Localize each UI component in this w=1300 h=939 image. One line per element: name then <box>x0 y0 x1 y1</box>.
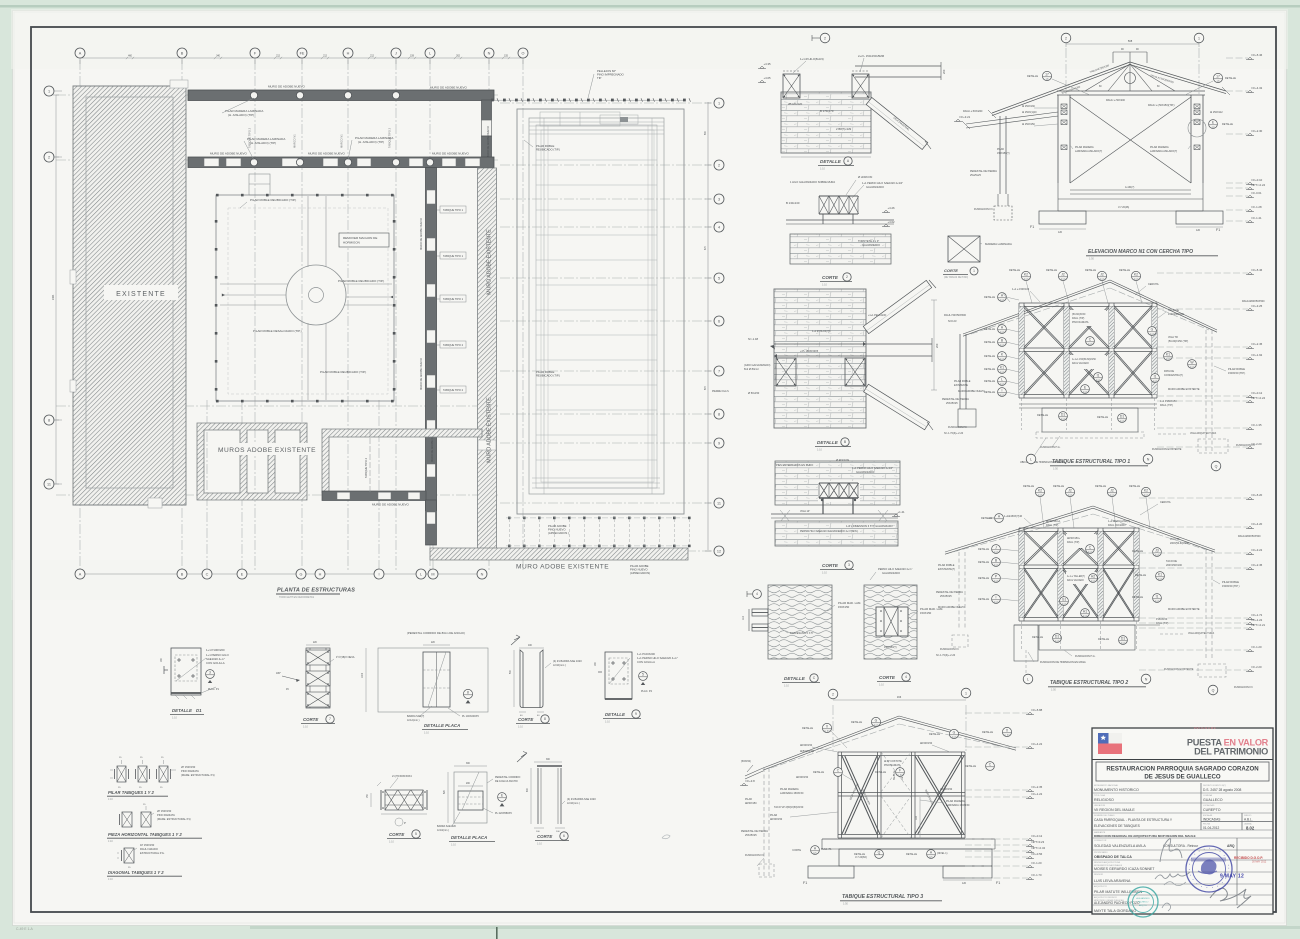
svg-text:A-164(?): A-164(?) <box>1125 186 1135 189</box>
svg-text:DEL PATRIMONIO: DEL PATRIMONIO <box>1194 747 1268 757</box>
svg-text:NPT=0.23: NPT=0.23 <box>1032 840 1045 844</box>
truss webs <box>1129 62 1131 91</box>
svg-text:OBISPADO DE TALCA: OBISPADO DE TALCA <box>1094 855 1132 859</box>
svg-text:1+1 P150X150: 1+1 P150X150 <box>1160 400 1177 403</box>
pilar tabiques 1 y 2 legend <box>117 766 126 782</box>
svg-text:PLANTA DE ESTRUCTURAS: PLANTA DE ESTRUCTURAS <box>277 588 355 594</box>
svg-text:150X150(?): 150X150(?) <box>997 152 1010 155</box>
svg-text:1:50: 1:50 <box>1089 258 1094 261</box>
svg-text:TORNTETE 4 x 3": TORNTETE 4 x 3" <box>858 239 879 243</box>
tipo3 middle bay dashed X <box>881 796 911 838</box>
svg-text:TABIQUE TIPO 2: TABIQUE TIPO 2 <box>443 343 464 347</box>
svg-text:1+1+1 150(50-60)X150: 1+1+1 150(50-60)X150 <box>1072 359 1096 361</box>
svg-text:CON GOLILLA: CON GOLILLA <box>637 660 655 664</box>
svg-text:Ø ROCION: Ø ROCION <box>836 458 849 462</box>
svg-text:166: 166 <box>897 695 902 699</box>
tipo1 callouts left <box>998 293 1007 302</box>
svg-text:1: 1 <box>718 101 720 105</box>
main posts <box>1057 95 1059 183</box>
svg-text:N=-1.70(3)+-2.20: N=-1.70(3)+-2.20 <box>936 654 956 657</box>
corte 7: laminated column <box>306 648 330 708</box>
svg-text:FUNDACION EXISTENTE: FUNDACION EXISTENTE <box>1164 668 1194 671</box>
svg-text:V-7.20(66): V-7.20(66) <box>855 856 867 859</box>
svg-text:UBICACION: UBICACION <box>1094 804 1106 807</box>
svg-text:ARQUITECTO REVISOR: ARQUITECTO REVISOR <box>1094 896 1117 899</box>
svg-text:DETALLE: DETALLE <box>978 577 989 580</box>
svg-text:H: H <box>347 51 350 55</box>
svg-text:1+1 P100X200: 1+1 P100X200 <box>206 648 225 652</box>
svg-text:25x25x25: 25x25x25 <box>970 174 981 177</box>
svg-text:LUIS LEIVA ARAVENA: LUIS LEIVA ARAVENA <box>1094 879 1131 883</box>
svg-text:I1: I1 <box>1156 595 1159 599</box>
svg-text:E10: E10 <box>1068 493 1073 497</box>
svg-text:LAMINADA AISLADO(?): LAMINADA AISLADO(?) <box>1150 150 1177 153</box>
svg-text:2: 2 <box>846 275 848 279</box>
svg-text:N=+3.22: N=+3.22 <box>1252 548 1263 552</box>
svg-text:(MADE. ESTRUCTURAL P1): (MADE. ESTRUCTURAL P1) <box>181 773 215 777</box>
east existing adobe wall (hatched vertical) <box>478 168 497 553</box>
svg-text:E10: E10 <box>1190 365 1195 369</box>
svg-text:150X150X100: 150X150X100 <box>1168 313 1184 316</box>
svg-text:DETALLE: DETALLE <box>817 440 839 445</box>
svg-text:8: 8 <box>718 412 720 416</box>
svg-text:7: 7 <box>329 717 331 721</box>
tie beam <box>1057 90 1205 92</box>
svg-text:N=+3.25: N=+3.25 <box>1252 304 1263 308</box>
detalle B: tall stone wall with beams and diagonals <box>774 289 866 428</box>
svg-text:CONCENTRA(?): CONCENTRA(?) <box>1164 374 1183 377</box>
svg-text:NPT=-0.24: NPT=-0.24 <box>1252 396 1266 400</box>
tabique estructural tipo 3 <box>828 689 838 699</box>
svg-text:PL 100X200X5: PL 100X200X5 <box>462 715 479 718</box>
svg-text:CORTE: CORTE <box>389 832 405 837</box>
svg-text:⊞ 150X(1)20: ⊞ 150X(1)20 <box>1022 111 1037 114</box>
svg-text:⊞ 150X112: ⊞ 150X112 <box>1210 111 1223 114</box>
svg-text:RELIGIOSO: RELIGIOSO <box>1094 798 1114 802</box>
svg-text:TABIQUE TIPO 2: TABIQUE TIPO 2 <box>248 127 252 148</box>
elevacion marco N1 con cercha tipo <box>1061 33 1071 43</box>
svg-text:2: 2 <box>718 163 720 167</box>
tipo3 vertical dim right <box>919 797 921 839</box>
svg-text:E 50: E 50 <box>1004 733 1010 737</box>
muros adobe existente rooms SW <box>197 423 307 500</box>
svg-text:B: B <box>181 51 184 55</box>
svg-text:9: 9 <box>718 441 720 445</box>
svg-text:K2: K2 <box>1038 489 1042 493</box>
tabique tipo labels along center wall <box>440 206 466 213</box>
svg-text:CORTE: CORTE <box>822 563 839 568</box>
svg-text:11: 11 <box>47 482 51 486</box>
svg-text:⊞150X150: ⊞150X150 <box>800 744 813 747</box>
svg-text:CONSULTORA - Retrour: CONSULTORA - Retrour <box>1163 844 1199 848</box>
diagonal tabiques legend <box>124 848 134 863</box>
svg-text:TABIQUE ESTRUCTURAL TIPO 3: TABIQUE ESTRUCTURAL TIPO 3 <box>842 894 923 900</box>
svg-text:E10: E10 <box>1000 393 1005 397</box>
svg-text:1000: 1000 <box>362 672 364 678</box>
svg-text:N=-1.20: N=-1.20 <box>1252 645 1262 649</box>
svg-text:PINO RADIATA: PINO RADIATA <box>1072 321 1089 324</box>
svg-text:17: 17 <box>1216 75 1220 79</box>
svg-text:1:10: 1:10 <box>822 284 827 287</box>
svg-text:REVISION ARQUITECTURA: REVISION ARQUITECTURA <box>1094 861 1120 864</box>
svg-text:1:10: 1:10 <box>108 840 113 843</box>
svg-text:FUNDACION EXISTENTE: FUNDACION EXISTENTE <box>1152 448 1182 451</box>
svg-text:DETALLE: DETALLE <box>1225 77 1236 80</box>
center circle element <box>286 265 346 325</box>
base / foundations <box>1070 189 1191 191</box>
svg-text:PINO RADIATA: PINO RADIATA <box>884 764 901 767</box>
teal circular stamp <box>1128 887 1158 917</box>
svg-text:REMOVER MACHON DE: REMOVER MACHON DE <box>343 236 377 240</box>
svg-text:LAMINADA 150X150: LAMINADA 150X150 <box>946 804 970 807</box>
svg-text:DETALLE: DETALLE <box>982 731 993 734</box>
svg-text:+4.35: +4.35 <box>764 62 772 66</box>
svg-text:+4.02: +4.02 <box>888 220 896 224</box>
svg-text:D1: D1 <box>1061 413 1065 417</box>
svg-text:(H. AISLADO) (TIP): (H. AISLADO) (TIP) <box>358 140 384 144</box>
svg-text:E10: E10 <box>1153 379 1158 383</box>
svg-text:8x2 Ø 80cm²: 8x2 Ø 80cm² <box>744 367 759 371</box>
svg-text:PACHECO: PACHECO <box>1138 901 1149 904</box>
svg-text:TABIQUE TIPO 2: TABIQUE TIPO 2 <box>364 457 368 478</box>
svg-text:17: 17 <box>1045 73 1049 77</box>
svg-text:EXISTENTE: EXISTENTE <box>116 291 166 298</box>
tabique estructural tipo 2 <box>1035 487 1044 496</box>
svg-text:DETALLE: DETALLE <box>1129 485 1140 488</box>
svg-text:1:10: 1:10 <box>172 717 177 720</box>
svg-text:MURO ADOBE EXISTENTE: MURO ADOBE EXISTENTE <box>1168 608 1200 611</box>
svg-text:MURO DE ADOBE NUEVO: MURO DE ADOBE NUEVO <box>419 358 423 390</box>
svg-text:•: • <box>1225 876 1226 880</box>
svg-text:TIP: TIP <box>597 76 601 80</box>
rafters <box>992 62 1130 113</box>
svg-text:PILAR ROBLE REUBICADO (TIP.): PILAR ROBLE REUBICADO (TIP.) <box>250 198 296 202</box>
svg-text:N=+0.56: N=+0.56 <box>1032 852 1043 856</box>
svg-text:PERNO HILO SAE1020 GALVANIZADO: PERNO HILO SAE1020 GALVANIZADO 4+¾"(MIN.… <box>800 530 858 533</box>
nave / east courtyard long building <box>517 109 684 514</box>
tipo3 roof <box>763 716 899 768</box>
svg-text:TABIQUE TIPO 1: TABIQUE TIPO 1 <box>443 297 464 301</box>
svg-text:DETALLE: DETALLE <box>813 771 824 774</box>
detalle C: wavy adobe with bolts <box>768 585 832 659</box>
left arrow markers corte7 <box>282 676 298 680</box>
svg-text:1:10: 1:10 <box>303 726 308 729</box>
svg-text:•: • <box>1196 882 1197 886</box>
svg-text:•: • <box>1190 873 1191 877</box>
tipo3 callouts <box>871 717 880 726</box>
svg-text:N=+3.8: N=+3.8 <box>746 779 756 783</box>
detalle placa 2 <box>454 772 487 823</box>
svg-text:INDICADAS: INDICADAS <box>1203 818 1220 822</box>
svg-text:E5: E5 <box>929 855 933 859</box>
svg-text:N=+5.46: N=+5.46 <box>1252 268 1263 272</box>
svg-text:25X25X25: 25X25X25 <box>745 834 757 837</box>
svg-text:LAMINADA AISLADO(?): LAMINADA AISLADO(?) <box>1075 150 1102 153</box>
svg-text:N=+5.20: N=+5.20 <box>1252 493 1263 497</box>
svg-text:FUNDACION F3: FUNDACION F3 <box>745 854 764 857</box>
svg-text:CUREPTO: CUREPTO <box>1203 808 1221 812</box>
svg-text:1+1 P100X200: 1+1 P100X200 <box>637 652 655 656</box>
svg-text:PEDESTAL DE PIEDRA: PEDESTAL DE PIEDRA <box>970 170 997 173</box>
svg-text:2+2 L 150x150x5MM: 2+2 L 150x150x5MM <box>858 54 885 58</box>
detalle D1 <box>171 648 201 695</box>
svg-text:N: N <box>488 51 491 55</box>
svg-text:DETALLE: DETALLE <box>965 765 976 768</box>
svg-text:I1: I1 <box>1097 374 1100 378</box>
svg-text:E10: E10 <box>1155 599 1160 603</box>
signatures (grey ink) <box>1160 839 1182 862</box>
left dimension chain <box>55 95 57 484</box>
svg-text:E10: E10 <box>994 579 999 583</box>
svg-text:•: • <box>1192 878 1193 882</box>
svg-text:•: • <box>1204 847 1205 851</box>
detail callouts 17 <box>1042 71 1051 80</box>
svg-text:25X25X25: 25X25X25 <box>946 402 958 405</box>
svg-text:GALVANIZADO: GALVANIZADO <box>866 185 884 189</box>
svg-text:EXISTENTE: EXISTENTE <box>954 384 968 387</box>
svg-text:DETALLE: DETALLE <box>978 598 989 601</box>
svg-text:N=+1.22: N=+1.22 <box>1252 618 1263 622</box>
svg-text:PEDESTAL DE PIEDRA: PEDESTAL DE PIEDRA <box>741 830 768 833</box>
svg-text:F1: F1 <box>1216 228 1220 232</box>
svg-text:200X150X100: 200X150X100 <box>1166 564 1182 567</box>
svg-text:REUBICADO (TIP.): REUBICADO (TIP.) <box>536 148 560 152</box>
svg-text:ELEVACIONES DE TABIQUES: ELEVACIONES DE TABIQUES <box>1094 824 1141 828</box>
svg-text:DETALLE: DETALLE <box>875 771 886 774</box>
svg-text:E10: E10 <box>994 600 999 604</box>
svg-text:PROPIETARIO: PROPIETARIO <box>1094 851 1108 854</box>
svg-text:•: • <box>1220 850 1221 854</box>
svg-text:N: N <box>1147 457 1150 461</box>
svg-text:•: • <box>1199 849 1200 853</box>
svg-text:7: 7 <box>718 369 720 373</box>
remover machon label box <box>339 233 389 247</box>
svg-text:E10: E10 <box>1061 277 1066 281</box>
tipo3 frame <box>838 751 965 753</box>
svg-text:TABIQUE TIPO 1: TABIQUE TIPO 1 <box>443 254 464 258</box>
svg-text:•: • <box>1227 858 1228 862</box>
svg-text:E10: E10 <box>1150 332 1155 336</box>
svg-text:8: 8 <box>48 418 50 422</box>
tipo3 big diagonal braces <box>842 756 877 834</box>
svg-text:1:10: 1:10 <box>108 878 113 881</box>
svg-text:N=+0.10: N=+0.10 <box>1252 178 1263 182</box>
svg-text:RAULI GRADO: RAULI GRADO <box>140 847 158 851</box>
svg-text:DETALLE: DETALLE <box>820 159 842 164</box>
svg-text:1: 1 <box>48 89 50 93</box>
svg-text:CERCHA: CERCHA <box>1160 501 1171 504</box>
svg-text:⊞ 150X150: ⊞ 150X150 <box>1022 123 1035 126</box>
svg-text:A=12(mm ): A=12(mm ) <box>407 719 420 722</box>
svg-text:E10: E10 <box>1061 417 1066 421</box>
muro de adobe nuevo - north wall <box>188 90 494 101</box>
svg-text:VIGA TR: VIGA TR <box>1168 336 1178 339</box>
svg-text:PATA DE: PATA DE <box>1164 370 1174 373</box>
svg-text:N=-1.20: N=-1.20 <box>1032 861 1042 865</box>
svg-text:CORTE: CORTE <box>822 275 839 280</box>
svg-text:H1: H1 <box>1083 610 1087 614</box>
svg-text:PILAR TABIQUES 1 Y 2: PILAR TABIQUES 1 Y 2 <box>108 790 155 795</box>
svg-text:(DE TABLAS DE PINO): (DE TABLAS DE PINO) <box>944 276 968 279</box>
svg-text:FUNDACION H.A.: FUNDACION H.A. <box>1040 446 1061 449</box>
svg-text:DETALLE: DETALLE <box>802 727 813 730</box>
svg-text:E 50: E 50 <box>824 729 830 733</box>
svg-text:PINO RADIATA: PINO RADIATA <box>181 769 199 773</box>
svg-text:PIEDRE FILA S: PIEDRE FILA S <box>712 390 729 393</box>
svg-text:5: 5 <box>415 832 417 836</box>
svg-text:MOISES GERARDO ICAZA SONNET: MOISES GERARDO ICAZA SONNET <box>1094 867 1155 871</box>
svg-text:9°: 9° <box>404 823 406 825</box>
svg-text:⊞150X150: ⊞150X150 <box>940 788 953 791</box>
svg-text:K1: K1 <box>1166 353 1170 357</box>
svg-text:MURO ADOBE EXISTENTE: MURO ADOBE EXISTENTE <box>516 564 609 571</box>
tipo1 foundations <box>1019 403 1157 405</box>
svg-text:150X150: 150X150 <box>838 605 850 609</box>
svg-text:N=+1.22: N=+1.22 <box>1032 792 1043 796</box>
svg-text:4: 4 <box>756 592 758 596</box>
svg-text:B 170x170: B 170x170 <box>820 109 834 113</box>
svg-text:J2: J2 <box>1061 273 1065 277</box>
svg-text:2P 150X150: 2P 150X150 <box>181 765 196 769</box>
svg-text:ARQTO.: ARQTO. <box>1139 904 1148 907</box>
svg-text:⊞ 2P COSTOTE: ⊞ 2P COSTOTE <box>884 760 902 763</box>
svg-text:1P 150X150: 1P 150X150 <box>140 843 155 847</box>
logo: chilean flag <box>1098 733 1109 744</box>
svg-text:VIGA ARQUITECTURA: VIGA ARQUITECTURA <box>1188 632 1214 635</box>
svg-text:1 HILO GALVANIZADO SOBRE MURA: 1 HILO GALVANIZADO SOBRE MURA <box>790 180 835 184</box>
svg-text:N=-1.35: N=-1.35 <box>1252 423 1262 427</box>
svg-text:30 MAY 2012: 30 MAY 2012 <box>1252 861 1267 864</box>
svg-text:150X150(?): 150X150(?) <box>884 646 897 649</box>
svg-text:1:10: 1:10 <box>822 572 827 575</box>
svg-text:E10: E10 <box>1000 343 1005 347</box>
svg-text:⊞150X150: ⊞150X150 <box>920 742 933 745</box>
svg-text:E10: E10 <box>1000 298 1005 302</box>
svg-text:DETALLE: DETALLE <box>1027 75 1038 78</box>
svg-text:L: L <box>420 572 422 576</box>
svg-text:M: M <box>431 572 434 576</box>
svg-text:•: • <box>1194 852 1195 856</box>
svg-text:1+1 PERNO HILO SAE1020 4+3/4": 1+1 PERNO HILO SAE1020 4+3/4" <box>852 466 893 470</box>
svg-text:1: 1 <box>1198 36 1200 40</box>
svg-text:150X150: 150X150 <box>920 611 932 615</box>
svg-text:508: 508 <box>1128 39 1133 43</box>
svg-text:1+1 PERNO HILO SAE1020 4+3/4": 1+1 PERNO HILO SAE1020 4+3/4" <box>862 181 903 185</box>
svg-text:Q: Q <box>878 851 881 855</box>
svg-text:A: A <box>79 51 82 55</box>
tipo2 foundations <box>1014 624 1160 626</box>
svg-text:FUNDACION F3: FUNDACION F3 <box>940 648 959 651</box>
svg-text:N=+5.88: N=+5.88 <box>1032 708 1043 712</box>
svg-text:FE: FE <box>300 51 305 55</box>
svg-text:E10: E10 <box>1166 357 1171 361</box>
svg-text:MURO DE ADOBE NUEVO: MURO DE ADOBE NUEVO <box>372 503 410 507</box>
NE corner wall segment <box>482 100 492 120</box>
svg-text:FUNDACION H.A.: FUNDACION H.A. <box>1075 655 1096 658</box>
svg-text:N=0.23: N=0.23 <box>948 319 957 323</box>
svg-text:CORTE: CORTE <box>879 675 896 680</box>
svg-text:RAULI ⌀ 50X200: RAULI ⌀ 50X200 <box>1106 99 1125 102</box>
svg-text:2: 2 <box>824 36 826 40</box>
svg-text:+1+1 PELICANO: +1+1 PELICANO <box>868 314 886 317</box>
svg-text:5: 5 <box>642 673 644 677</box>
svg-text:E: E <box>241 572 244 576</box>
svg-text:GALVANIZADO: GALVANIZADO <box>882 571 900 575</box>
svg-text:PILAR ROBLE REUBICADO (TIP.): PILAR ROBLE REUBICADO (TIP.) <box>320 370 366 374</box>
svg-text:⊞(50)X1(?)0: ⊞(50)X1(?)0 <box>800 750 815 753</box>
svg-text:DETALLE: DETALLE <box>605 712 626 717</box>
svg-text:PIES ENTERRADOS EN RUDO: PIES ENTERRADOS EN RUDO <box>776 463 813 467</box>
svg-text:1:50: 1:50 <box>1053 468 1058 471</box>
svg-text:120: 120 <box>1058 231 1063 234</box>
svg-text:N=-1.70: N=-1.70 <box>1032 873 1042 877</box>
svg-text:DE JESUS DE GUALLECO: DE JESUS DE GUALLECO <box>1144 774 1220 781</box>
svg-text:1+1 ⌀ 150X100: 1+1 ⌀ 150X100 <box>1012 288 1030 291</box>
svg-text:PILAR ROBLE: PILAR ROBLE <box>938 564 955 567</box>
svg-text:PINO RADIATA: PINO RADIATA <box>157 813 175 817</box>
svg-text:EXISTENTE(?): EXISTENTE(?) <box>938 568 955 571</box>
svg-text:(NIVEL 1): (NIVEL 1) <box>937 852 948 855</box>
svg-text:1+1 ⌀EVOLUZAD(?): 1+1 ⌀EVOLUZAD(?) <box>1108 520 1130 523</box>
svg-text:DIAGONAL TABIQUES 1 Y 2: DIAGONAL TABIQUES 1 Y 2 <box>108 870 164 875</box>
svg-text:8.02: 8.02 <box>1246 825 1255 830</box>
svg-text:RAULI 50X50X500: RAULI 50X50X500 <box>944 313 966 317</box>
svg-text:CERCHA: CERCHA <box>1148 283 1159 286</box>
svg-text:CORTE: CORTE <box>792 849 801 852</box>
legend square madera laminada <box>948 236 980 262</box>
svg-text:+4°L 150X150X5: +4°L 150X150X5 <box>800 350 819 353</box>
svg-text:J3: J3 <box>1155 549 1159 553</box>
svg-text:N=-1.70(3)+-2.20: N=-1.70(3)+-2.20 <box>944 432 964 435</box>
svg-text:1:10: 1:10 <box>389 841 394 844</box>
svg-text:J2: J2 <box>1100 273 1104 277</box>
svg-text:DETALLE: DETALLE <box>1023 485 1034 488</box>
svg-text:⊞150X150: ⊞150X150 <box>770 818 783 821</box>
svg-text:E10: E10 <box>1000 357 1005 361</box>
svg-text:1:10: 1:10 <box>784 685 789 688</box>
svg-text:DETALLE: DETALLE <box>1046 269 1057 272</box>
svg-text:MURO ADOBE EXISTENTE: MURO ADOBE EXISTENTE <box>487 397 493 463</box>
ridge box <box>1113 51 1147 53</box>
corte 5: horizontal laminated piece <box>385 790 423 810</box>
nave bottom pillar dots with ticks <box>508 517 511 520</box>
svg-text:E10: E10 <box>1088 342 1093 346</box>
svg-text:9: 9 <box>635 712 637 716</box>
right level markers <box>1226 57 1248 59</box>
svg-text:ARQUITECTO: ARQUITECTO <box>1094 885 1108 888</box>
svg-text:(H. AISLADO) (TIP): (H. AISLADO) (TIP) <box>228 113 254 117</box>
svg-text:VIGA ARQUITECTURA: VIGA ARQUITECTURA <box>1190 432 1216 435</box>
svg-text:L: L <box>1030 457 1032 461</box>
tipo1 bottom bubbles + title <box>1026 454 1036 464</box>
svg-text:PL 220X580X5: PL 220X580X5 <box>495 812 512 815</box>
svg-text:N: N <box>1145 677 1148 681</box>
pieza horizontal tabiques legend <box>122 812 132 827</box>
svg-text:•: • <box>1189 862 1190 866</box>
tipo2 center text block <box>1066 534 1096 548</box>
svg-text:N=-1.48: N=-1.48 <box>748 337 758 341</box>
svg-text:1+1 PERNO HILO SAE1020 4+¾": 1+1 PERNO HILO SAE1020 4+¾" <box>637 656 678 660</box>
svg-text:HORMIGON: HORMIGON <box>343 241 360 245</box>
svg-text:(4) #1 BARRA SAE 1020: (4) #1 BARRA SAE 1020 <box>567 797 596 801</box>
svg-text:DETALLE: DETALLE <box>1132 550 1143 553</box>
svg-text:E10: E10 <box>1120 419 1125 423</box>
svg-text:N=+4.32: N=+4.32 <box>1252 86 1263 90</box>
svg-text:D1: D1 <box>1121 637 1125 641</box>
courtyard structure rectangle with pillars <box>216 195 394 401</box>
svg-text:3: 3 <box>209 671 211 675</box>
svg-text:CORTE: CORTE <box>537 834 553 839</box>
